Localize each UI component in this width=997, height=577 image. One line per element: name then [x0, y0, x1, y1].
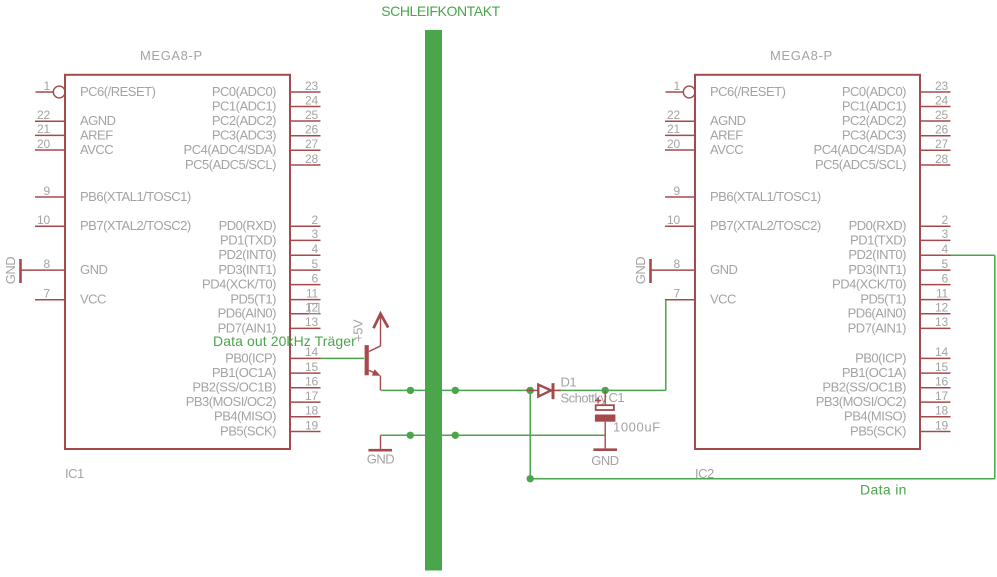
svg-text:27: 27 — [935, 137, 948, 151]
svg-text:19: 19 — [935, 418, 948, 432]
IC2 pin 15 PB1 OC1A — [842, 360, 951, 380]
wire: diode cathode to C1 top and VCC riser (y=390) — [558, 389, 666, 391]
svg-text:PD4(XCK/T0): PD4(XCK/T0) — [832, 277, 906, 292]
svg-text:8: 8 — [44, 257, 51, 271]
IC1 pin 1 PC6 -RESET — [36, 79, 156, 99]
transistor Q1 collector stroke — [369, 346, 381, 352]
svg-text:SCHLEIFKONTAKT: SCHLEIFKONTAKT — [381, 3, 500, 19]
svg-text:11: 11 — [306, 286, 319, 300]
junction at diode anode node — [527, 387, 534, 394]
svg-text:PC3(ADC3): PC3(ADC3) — [842, 128, 906, 143]
svg-text:PB6(XTAL1/TOSC1): PB6(XTAL1/TOSC1) — [80, 189, 191, 204]
svg-text:PD3(INT1): PD3(INT1) — [848, 262, 906, 277]
svg-text:25: 25 — [305, 108, 318, 122]
svg-text:Data out 20kHz Träger: Data out 20kHz Träger — [213, 333, 356, 349]
IC2 pin 13 PD7 AIN1 — [848, 315, 951, 335]
svg-text:PD7(AIN1): PD7(AIN1) — [848, 320, 907, 335]
IC2 pin 2 PD0 RXD — [849, 213, 951, 233]
svg-text:AVCC: AVCC — [80, 142, 113, 157]
svg-text:4: 4 — [312, 242, 319, 256]
diode D1 anode lead — [526, 389, 538, 391]
svg-text:PD1(TXD): PD1(TXD) — [850, 232, 906, 247]
svg-text:PB1(OC1A): PB1(OC1A) — [842, 365, 906, 380]
svg-text:PD4(XCK/T0): PD4(XCK/T0) — [202, 277, 276, 292]
IC2 pin 6 PD4 XCK-T0 — [832, 271, 950, 291]
IC1 pin 11 PD5 T1 — [230, 286, 320, 306]
wire: emitter node to diode anode (upper horizontal, y=390) — [381, 389, 534, 391]
svg-text:21: 21 — [667, 122, 680, 136]
svg-text:PB6(XTAL1/TOSC1): PB6(XTAL1/TOSC1) — [710, 189, 821, 204]
svg-text:22: 22 — [37, 108, 50, 122]
junction at C1 positive node — [602, 387, 609, 394]
diode D1 cathode bar — [552, 383, 555, 399]
svg-text:PB2(SS/OC1B): PB2(SS/OC1B) — [822, 380, 906, 395]
svg-text:4: 4 — [942, 242, 949, 256]
svg-text:PC6(/RESET): PC6(/RESET) — [710, 84, 786, 99]
IC2 pin 24 PC1 ADC1 — [842, 93, 951, 113]
ground symbol under capacitor C1 — [591, 450, 619, 468]
svg-text:MEGA8-P: MEGA8-P — [140, 48, 203, 63]
svg-text:AVCC: AVCC — [710, 142, 743, 157]
transistor Q1 emitter lead down — [379, 376, 381, 391]
svg-text:27: 27 — [305, 137, 318, 151]
svg-text:28: 28 — [305, 152, 318, 166]
svg-text:18: 18 — [305, 404, 318, 418]
ground symbol at IC1 pin 8 — [3, 257, 21, 285]
svg-text:15: 15 — [935, 360, 948, 374]
IC1 pin 10 PB7 XTAL2-TOSC2 — [35, 213, 191, 233]
svg-text:PC4(ADC4/SDA): PC4(ADC4/SDA) — [814, 142, 907, 157]
svg-text:PC5(ADC5/SCL): PC5(ADC5/SCL) — [815, 157, 906, 172]
IC1 pin 25 PC2 ADC2 — [212, 108, 321, 128]
svg-text:GND: GND — [591, 453, 619, 468]
IC2 pin 12 PD6 AIN0 — [848, 301, 951, 321]
IC1 pin 7 VCC — [35, 287, 106, 307]
svg-text:13: 13 — [935, 315, 948, 329]
svg-text:24: 24 — [305, 93, 318, 107]
capacitor C1 negative plate (solid) — [595, 415, 616, 422]
svg-text:GND: GND — [80, 262, 108, 277]
svg-text:10: 10 — [37, 213, 50, 227]
IC2 pin 16 PB2 SS-OC1B — [822, 375, 950, 395]
IC1 pin 9 PB6 XTAL1-TOSC1 — [35, 184, 191, 204]
wire: IC1 pin 14 to transistor base — [321, 357, 365, 359]
IC2 pin 27 PC4 ADC4-SDA — [814, 137, 951, 157]
IC1 pin 18 PB4 MISO — [214, 404, 320, 424]
IC IC1 body (MEGA8-P) — [65, 75, 290, 449]
svg-text:23: 23 — [305, 79, 318, 93]
junction at Data in rail corner — [527, 475, 534, 482]
svg-text:26: 26 — [935, 123, 948, 137]
capacitor C1 positive plate (hollow) — [596, 405, 614, 410]
svg-text:C1: C1 — [609, 390, 625, 405]
IC2 pin 19 PB5 SCK — [850, 418, 950, 438]
svg-text:1: 1 — [44, 79, 51, 93]
ground symbol on lower rail (left of bar) — [367, 435, 395, 466]
svg-text:PC1(ADC1): PC1(ADC1) — [842, 98, 906, 113]
svg-text:25: 25 — [935, 108, 948, 122]
transistor Q1 collector lead up to +5V — [380, 315, 382, 347]
svg-text:12: 12 — [305, 301, 318, 315]
wire: lower ground rail (y=435) — [381, 434, 606, 436]
svg-text:24: 24 — [935, 93, 948, 107]
svg-text:3: 3 — [942, 227, 949, 241]
svg-text:PD1(TXD): PD1(TXD) — [220, 232, 276, 247]
IC2 pin 14 PB0 ICP — [855, 345, 950, 365]
svg-text:PB5(SCK): PB5(SCK) — [220, 423, 276, 438]
IC1 pin 4 PD2 INT0 — [218, 242, 320, 262]
svg-text:GND: GND — [710, 262, 738, 277]
svg-text:PC2(ADC2): PC2(ADC2) — [842, 113, 906, 128]
wire: Data in horizontal rail (y=479) — [530, 478, 995, 480]
IC1 pin 14 PB0 ICP — [225, 345, 320, 365]
IC1 pin 20 AVCC — [35, 137, 113, 157]
svg-text:21: 21 — [37, 122, 50, 136]
svg-text:GND: GND — [367, 452, 395, 467]
IC2 pin 22 AGND — [665, 108, 746, 128]
svg-text:7: 7 — [674, 287, 681, 301]
IC2 pin 18 PB4 MISO — [844, 404, 950, 424]
svg-text:5: 5 — [942, 257, 949, 271]
IC1 pin 13 PD7 AIN1 — [218, 315, 321, 335]
transistor Q1 (NPN) base bar — [365, 345, 369, 375]
svg-text:PD3(INT1): PD3(INT1) — [218, 262, 276, 277]
capacitor C1 bottom lead — [604, 422, 606, 449]
svg-text:6: 6 — [942, 271, 949, 285]
IC2 pin 4 PD2 INT0 — [848, 242, 950, 262]
IC1 pin 15 PB1 OC1A — [212, 360, 321, 380]
svg-text:PD5(T1): PD5(T1) — [860, 292, 906, 307]
IC1 pin 12 PD6 AIN0 — [218, 301, 321, 321]
svg-text:IC1: IC1 — [65, 466, 84, 481]
svg-text:MEGA8-P: MEGA8-P — [770, 48, 833, 63]
IC2 pin 21 AREF — [665, 122, 743, 142]
svg-text:9: 9 — [44, 184, 51, 198]
svg-text:PD0(RXD): PD0(RXD) — [849, 218, 907, 233]
IC1 pin 19 PB5 SCK — [220, 418, 320, 438]
IC2 pin 5 PD3 INT1 — [848, 257, 950, 277]
IC2 pin 17 PB3 MOSI-OC2 — [816, 389, 951, 409]
svg-text:PC6(/RESET): PC6(/RESET) — [80, 84, 156, 99]
IC2 pin 3 PD1 TXD — [850, 227, 950, 247]
capacitor C1 top lead — [604, 390, 606, 404]
svg-text:PD2(INT0): PD2(INT0) — [218, 247, 276, 262]
svg-text:22: 22 — [667, 108, 680, 122]
svg-text:PB4(MISO): PB4(MISO) — [844, 409, 906, 424]
svg-text:VCC: VCC — [710, 292, 736, 307]
wire: into IC2 pin 4 PD2 INT0 — [951, 254, 995, 256]
svg-text:AGND: AGND — [80, 113, 116, 128]
svg-text:PB3(MOSI/OC2): PB3(MOSI/OC2) — [816, 394, 906, 409]
IC1 pin 26 PC3 ADC3 — [212, 123, 321, 143]
IC2 pin 25 PC2 ADC2 — [842, 108, 951, 128]
svg-text:D1: D1 — [561, 375, 577, 390]
svg-text:6: 6 — [312, 271, 319, 285]
IC1 pin 28 PC5 ADC5-SCL — [185, 152, 321, 172]
svg-text:16: 16 — [935, 375, 948, 389]
IC2 pin 26 PC3 ADC3 — [842, 123, 951, 143]
svg-text:20: 20 — [37, 137, 50, 151]
svg-text:3: 3 — [312, 227, 319, 241]
IC2 pin 11 PD5 T1 — [860, 286, 950, 306]
IC1 pin 2 PD0 RXD — [219, 213, 321, 233]
IC1 pin 21 AREF — [35, 122, 113, 142]
diode D1 triangle — [538, 385, 551, 397]
svg-text:PC5(ADC5/SCL): PC5(ADC5/SCL) — [185, 157, 276, 172]
svg-text:16: 16 — [305, 375, 318, 389]
svg-text:PC0(ADC0): PC0(ADC0) — [842, 84, 906, 99]
svg-text:PB5(SCK): PB5(SCK) — [850, 423, 906, 438]
IC2 pin 23 PC0 ADC0 — [842, 79, 951, 99]
svg-text:PD5(T1): PD5(T1) — [230, 292, 276, 307]
svg-text:15: 15 — [305, 360, 318, 374]
svg-text:1000uF: 1000uF — [613, 420, 661, 435]
svg-text:PC2(ADC2): PC2(ADC2) — [212, 113, 276, 128]
svg-text:PD6(AIN0): PD6(AIN0) — [848, 306, 907, 321]
svg-text:PC0(ADC0): PC0(ADC0) — [212, 84, 276, 99]
diode D1 cathode lead — [555, 389, 561, 391]
svg-text:PB0(ICP): PB0(ICP) — [855, 350, 906, 365]
junction on lower rail left of bar — [407, 432, 414, 439]
IC2 pin 28 PC5 ADC5-SCL — [815, 152, 951, 172]
wire: VCC riser up to IC2 pin 7 — [665, 300, 667, 390]
svg-text:PB0(ICP): PB0(ICP) — [225, 350, 276, 365]
IC2 pin 10 PB7 XTAL2-TOSC2 — [665, 213, 821, 233]
svg-text:PD6(AIN0): PD6(AIN0) — [218, 306, 277, 321]
IC1 pin 22 AGND — [35, 108, 116, 128]
svg-text:12: 12 — [935, 301, 948, 315]
IC1 pin 16 PB2 SS-OC1B — [192, 375, 320, 395]
svg-text:5: 5 — [312, 257, 319, 271]
IC2 pin 1 PC6 -RESET — [666, 79, 786, 99]
IC1 pin 23 PC0 ADC0 — [212, 79, 321, 99]
junction on upper rail right of bar — [452, 387, 459, 394]
svg-text:1: 1 — [674, 79, 681, 93]
svg-text:8: 8 — [674, 257, 681, 271]
svg-text:PC1(ADC1): PC1(ADC1) — [212, 98, 276, 113]
svg-text:GND: GND — [633, 257, 648, 285]
svg-text:19: 19 — [305, 418, 318, 432]
ground symbol at IC2 pin 8 — [633, 257, 651, 285]
junction on upper rail left of bar — [407, 387, 414, 394]
svg-text:PC3(ADC3): PC3(ADC3) — [212, 128, 276, 143]
svg-text:GND: GND — [3, 257, 18, 285]
svg-text:AGND: AGND — [710, 113, 746, 128]
svg-text:11: 11 — [936, 286, 949, 300]
IC1 pin 24 PC1 ADC1 — [212, 93, 321, 113]
node SCHLEIFKONTAKT sliding-contact bar — [425, 30, 442, 571]
IC2 pin 7 VCC — [665, 287, 736, 307]
svg-text:26: 26 — [305, 123, 318, 137]
IC2 pin 8 GND — [651, 257, 738, 277]
svg-text:PB1(OC1A): PB1(OC1A) — [212, 365, 276, 380]
IC IC2 body (MEGA8-P) — [695, 75, 920, 449]
IC1 pin 3 PD1 TXD — [220, 227, 320, 247]
svg-text:14: 14 — [935, 345, 948, 359]
svg-text:AREF: AREF — [710, 127, 743, 142]
junction on lower rail right of bar — [452, 432, 459, 439]
wire: drop from diode anode node down to Data in rail — [529, 390, 531, 478]
svg-text:7: 7 — [44, 287, 51, 301]
svg-text:AREF: AREF — [80, 127, 113, 142]
svg-text:10: 10 — [667, 213, 680, 227]
svg-text:13: 13 — [305, 315, 318, 329]
IC1 pin 17 PB3 MOSI-OC2 — [186, 389, 321, 409]
svg-text:PB7(XTAL2/TOSC2): PB7(XTAL2/TOSC2) — [80, 218, 191, 233]
svg-text:17: 17 — [305, 389, 318, 403]
capacitor C1 plus sign — [595, 397, 601, 403]
svg-text:PD0(RXD): PD0(RXD) — [219, 218, 277, 233]
svg-text:23: 23 — [935, 79, 948, 93]
IC1 pin 6 PD4 XCK-T0 — [202, 271, 320, 291]
svg-text:PB7(XTAL2/TOSC2): PB7(XTAL2/TOSC2) — [710, 218, 821, 233]
IC2 pin 9 PB6 XTAL1-TOSC1 — [665, 184, 821, 204]
IC1 pin 27 PC4 ADC4-SDA — [184, 137, 321, 157]
transistor Q1 emitter stroke with arrow — [369, 369, 381, 376]
svg-text:2: 2 — [942, 213, 949, 227]
IC1 pin 8 GND — [21, 257, 108, 277]
marker box over IC1 pin 12 number — [309, 303, 319, 314]
wire: Data in right-edge riser — [994, 255, 996, 479]
svg-text:17: 17 — [935, 389, 948, 403]
svg-text:20: 20 — [667, 137, 680, 151]
svg-text:PD2(INT0): PD2(INT0) — [848, 247, 906, 262]
IC2 pin 20 AVCC — [665, 137, 743, 157]
svg-text:PB2(SS/OC1B): PB2(SS/OC1B) — [192, 380, 276, 395]
svg-text:Data in: Data in — [860, 482, 907, 498]
IC1 pin 5 PD3 INT1 — [218, 257, 320, 277]
svg-text:Schottky: Schottky — [561, 390, 608, 405]
svg-text:PB4(MISO): PB4(MISO) — [214, 409, 276, 424]
svg-text:VCC: VCC — [80, 292, 106, 307]
svg-text:PC4(ADC4/SDA): PC4(ADC4/SDA) — [184, 142, 277, 157]
svg-text:9: 9 — [674, 184, 681, 198]
svg-text:28: 28 — [935, 152, 948, 166]
svg-text:18: 18 — [935, 404, 948, 418]
svg-text:2: 2 — [312, 213, 319, 227]
svg-text:PB3(MOSI/OC2): PB3(MOSI/OC2) — [186, 394, 276, 409]
supply +5V arrow symbol — [374, 314, 389, 328]
